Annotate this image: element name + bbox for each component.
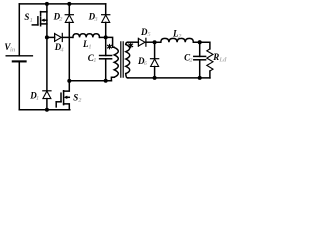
label C2 (184, 52, 193, 63)
svg-text:in: in (10, 46, 16, 53)
capacitor C1 (100, 37, 112, 80)
diode D3 (102, 4, 110, 38)
transformer secondary winding (126, 42, 130, 78)
diode D2 (65, 4, 73, 81)
transformer core (121, 42, 123, 77)
junction dot D5/D6/L2 (153, 40, 157, 44)
junction dot D2 on top rail (67, 2, 71, 6)
junction dot D6 anode on secondary rail (153, 76, 157, 80)
polarity dot primary (star) (108, 44, 112, 48)
diode D5 (138, 38, 154, 46)
svg-text:4: 4 (59, 46, 64, 53)
svg-text:5: 5 (147, 31, 151, 38)
junction dot C1 bottom (104, 79, 108, 83)
junction dot D2/S2 node (67, 79, 71, 83)
transistor S2 (56, 81, 69, 110)
svg-text:1: 1 (93, 57, 96, 64)
svg-text:1: 1 (30, 17, 33, 24)
junction node A: S1 source / D4 / D1 (45, 35, 49, 39)
inductor L2 (155, 38, 200, 42)
battery Vin (6, 56, 32, 110)
svg-text:6: 6 (144, 60, 148, 67)
inductor L1 (73, 34, 106, 38)
label D5 (140, 27, 151, 38)
wire secondary bottom rail (128, 77, 210, 79)
wire secondary top to D5 (128, 41, 139, 43)
label D2 (53, 11, 64, 23)
junction dot C2 bottom on secondary rail (198, 76, 202, 80)
svg-text:2: 2 (77, 97, 82, 104)
svg-text:3: 3 (93, 16, 98, 23)
transformer primary winding (111, 47, 118, 80)
junction dot S1 drain on top rail (45, 2, 49, 6)
wire primary bottom rail (69, 80, 111, 82)
junction node B: L1 / D3 / C1 / primary top (104, 35, 108, 39)
label D4 (54, 42, 65, 54)
wire bottom rail (19, 109, 70, 111)
svg-text:1: 1 (88, 44, 91, 51)
resistor RL (207, 49, 213, 78)
label D3 (88, 11, 99, 23)
wire C2 node to RL (200, 42, 210, 49)
label C1 (88, 53, 97, 64)
label Vin (4, 42, 15, 54)
label RL (212, 52, 227, 63)
label S2 (73, 93, 82, 105)
wire node A to D4 (47, 36, 55, 38)
wire node B to transformer primary top (106, 37, 115, 47)
svg-text:2: 2 (188, 57, 193, 64)
label S1 (24, 12, 32, 24)
diode D6 (151, 42, 159, 78)
label L1 (82, 39, 92, 50)
label D6 (137, 56, 148, 67)
diode D4 (55, 33, 73, 41)
wire top rail (19, 3, 105, 5)
svg-text:2: 2 (177, 33, 182, 40)
svg-text:2: 2 (58, 16, 63, 23)
transistor S1 (32, 4, 47, 38)
junction dot L2/C2 (198, 40, 202, 44)
capacitor C2 (194, 42, 206, 78)
junction dot D1 anode on bottom rail (45, 108, 49, 112)
svg-text:Ld: Ld (218, 57, 227, 64)
label L2 (172, 28, 182, 39)
wire left vertical from Vin+ to top rail (18, 4, 20, 56)
svg-text:1: 1 (36, 95, 39, 102)
svg-text:R: R (212, 52, 219, 62)
polarity dot secondary (star) (129, 43, 133, 47)
label D1 (29, 91, 39, 103)
diode D1 (43, 37, 51, 109)
